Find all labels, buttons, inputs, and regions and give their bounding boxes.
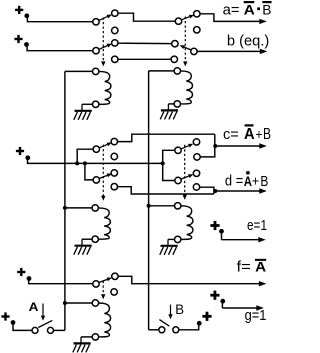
switch A contact left: [32, 327, 38, 333]
feed wire f: [29, 280, 93, 284]
contact B-c fixed lower: [194, 154, 200, 160]
wire switch B to + terminal: [179, 325, 199, 330]
output e wire with arrow: [221, 232, 223, 240]
svg-text:f=: f=: [237, 259, 252, 276]
junction A bus to coil A2: [63, 206, 67, 210]
contact A-f fixed lower (unconnected): [111, 289, 117, 295]
wire coil B2 bottom to ground: [168, 238, 175, 240]
switch B actuation arrow (down): [170, 305, 172, 315]
contact B row-b movable (common): [191, 48, 197, 54]
contact B row-a actuation arrow: [182, 17, 190, 20]
contact B row-a fixed upper: [194, 11, 200, 17]
switch B contact left: [159, 327, 165, 333]
contact A row-a fixed upper: [112, 10, 118, 16]
contact A row-a fixed lower (unconnected): [112, 27, 118, 33]
contact B-c movable: [175, 147, 181, 153]
junction feed to upper branch: [75, 161, 79, 165]
relay coil A3: [92, 300, 98, 306]
wire A bus vertical (switch A to coils): [64, 71, 66, 330]
svg-text:c=: c=: [223, 126, 239, 143]
wire row b from + terminal: [27, 46, 93, 51]
node d junction: [213, 189, 217, 193]
wire coil A2 bottom to ground: [82, 238, 92, 240]
svg-text:e=1: e=1: [247, 217, 267, 234]
relay B mechanical link (dashed) middle: [184, 145, 186, 195]
contact A row-a actuation arrow: [99, 17, 107, 21]
contact A-c fixed lower (unconnected): [111, 153, 117, 159]
power terminal + (row a): [15, 9, 23, 11]
relay A mechanical link (dashed) lower: [102, 281, 104, 295]
wire bracket to B-c and B-d movables: [163, 150, 175, 180]
contact B row-a fixed lower (unconnected): [194, 27, 200, 33]
output a wire with arrow: [200, 14, 215, 22]
wire branch down to contact A-d movable: [85, 163, 93, 180]
relay coil B2: [175, 203, 181, 209]
contact B-d movable: [175, 177, 181, 183]
contact A-c actuation arrow: [100, 144, 108, 147]
relay B mechanical link (dashed) top: [184, 17, 186, 62]
ground (coil B1): [167, 104, 169, 111]
junction feed to B bracket: [161, 161, 165, 165]
contact A-f movable: [93, 281, 99, 287]
wire B-d fixed lower to node d: [200, 187, 214, 194]
power terminal + (switch B): [202, 315, 211, 318]
contact A-f fixed upper: [112, 273, 118, 279]
svg-text:a=: a=: [223, 2, 240, 19]
svg-text:B: B: [262, 1, 271, 17]
junction feed to lower branch: [83, 161, 87, 165]
output f wire with arrow: [118, 276, 133, 283]
wire from A row-b fixed lower to B fixed lower: [118, 58, 171, 60]
contact A row-b movable: [93, 48, 99, 54]
contact A row-a movable: [93, 19, 99, 25]
relay A mechanical link (dashed) top: [102, 18, 104, 62]
contact A-c fixed upper: [111, 138, 117, 144]
contact A row-b actuation arrow: [99, 46, 107, 50]
contact A row-b fixed upper: [112, 40, 118, 46]
feed wire middle: [28, 160, 163, 164]
contact B row-b fixed upper: [172, 41, 178, 47]
output b wire with arrow: [197, 50, 265, 52]
ground (coil A2): [81, 239, 83, 246]
svg-text:B: B: [260, 174, 268, 190]
relay A mechanical link (dashed) middle: [102, 145, 104, 197]
wire from A row-a fixed upper to B row-a movable: [118, 13, 175, 21]
wire coil A3 bottom to ground: [81, 336, 92, 338]
wire A-c fixed upper to node c: [118, 134, 215, 141]
contact B-d fixed lower: [193, 184, 199, 190]
wire A bus to coil A3 top: [65, 302, 92, 304]
contact B row-b fixed lower: [171, 56, 177, 62]
wire coil B1 bottom to ground: [168, 103, 174, 105]
power terminal + (output g): [210, 294, 219, 297]
switch B contact right: [173, 327, 179, 333]
wire B bus vertical (switch B to coils): [148, 71, 150, 330]
wire coil A1 top to A bus: [65, 70, 93, 72]
contact B-d actuation arrow: [181, 176, 189, 179]
svg-text:+: +: [252, 173, 259, 189]
ground (coil A3): [80, 337, 82, 344]
wire A bus to coil A2 top: [65, 207, 92, 209]
contact B row-a movable: [175, 18, 181, 24]
contact B-d fixed upper (unconnected): [193, 170, 199, 176]
svg-text:b (eq.): b (eq.): [227, 33, 269, 50]
power terminal + (middle feed): [16, 150, 24, 152]
relay coil A1: [93, 68, 99, 74]
power terminal + (output f): [17, 271, 25, 273]
output d wire with arrow: [215, 190, 264, 192]
power terminal + (row b): [14, 38, 22, 40]
ground (coil A1): [81, 104, 83, 111]
contact A row-b fixed lower: [112, 56, 118, 62]
contact A-d actuation arrow: [100, 175, 108, 178]
svg-text:d =: d =: [225, 173, 244, 190]
svg-text:g=1: g=1: [245, 307, 267, 324]
contact A-d fixed upper (unconnected): [111, 170, 117, 176]
switch A blade: [38, 320, 52, 327]
junction A bus to coil A3: [63, 301, 67, 305]
switch A actuation arrow (down): [42, 304, 44, 316]
relay coil B1: [174, 68, 180, 74]
svg-text:B: B: [263, 126, 271, 143]
svg-text:A: A: [244, 1, 255, 17]
ground (coil B2): [167, 239, 169, 245]
wire coil B1 top to B bus: [149, 70, 175, 72]
junction B bus to coil B2: [147, 204, 151, 208]
wire coil A1 bottom to ground: [82, 103, 93, 105]
switch A contact right: [48, 327, 54, 333]
wire from A row-b fixed upper to B fixed upper: [118, 42, 172, 44]
power terminal + (switch A): [1, 315, 9, 317]
output g wire with arrow: [221, 303, 223, 309]
svg-text:A: A: [255, 259, 266, 275]
wire switch A to A bus: [54, 329, 65, 331]
relay coil A2: [92, 205, 98, 211]
contact A-d movable: [93, 177, 99, 183]
output c wire with arrow: [215, 145, 264, 147]
contact A-c movable: [93, 146, 99, 152]
svg-text:B: B: [175, 301, 184, 317]
contact B-c fixed upper (unconnected): [193, 139, 199, 145]
svg-text:+: +: [256, 126, 263, 142]
wire row a from + terminal: [27, 18, 92, 22]
contact B-c actuation arrow: [181, 146, 189, 149]
svg-text:A: A: [29, 300, 39, 314]
wire branch up to contact A-c movable: [77, 149, 93, 163]
svg-text:A: A: [244, 126, 255, 143]
wire B bus to switch B: [149, 329, 159, 331]
power terminal + (output e): [210, 224, 219, 227]
wire B bus to coil B2 top: [149, 205, 175, 207]
wire + to switch A: [13, 324, 32, 330]
node c junction: [213, 144, 217, 148]
switch B blade: [159, 320, 169, 327]
contact A-f actuation arrow: [99, 279, 107, 282]
wire A-d fixed lower to node d: [118, 187, 214, 194]
contact B row-b actuation arrow: [184, 47, 191, 50]
contact A-d fixed lower: [111, 184, 117, 190]
svg-text:A: A: [244, 173, 252, 189]
wire B-c fixed lower to node c: [200, 134, 215, 157]
